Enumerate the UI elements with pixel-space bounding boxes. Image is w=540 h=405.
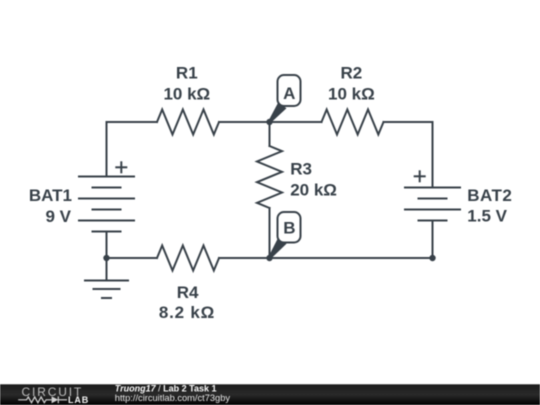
svg-text:LAB: LAB	[68, 395, 89, 405]
svg-text:A: A	[283, 84, 295, 103]
svg-text:10 kΩ: 10 kΩ	[328, 85, 375, 104]
svg-text:R2: R2	[341, 64, 363, 83]
svg-text:R3: R3	[290, 159, 312, 178]
svg-text:BAT1: BAT1	[29, 186, 72, 205]
svg-text:8.2 kΩ: 8.2 kΩ	[159, 303, 215, 322]
svg-text:R1: R1	[176, 64, 198, 83]
svg-text:1.5 V: 1.5 V	[467, 207, 507, 226]
svg-text:B: B	[283, 219, 295, 238]
svg-text:9 V: 9 V	[45, 207, 71, 226]
svg-text:Truong17 / Lab 2 Task 1: Truong17 / Lab 2 Task 1	[115, 383, 217, 393]
svg-text:10 kΩ: 10 kΩ	[163, 85, 210, 104]
svg-text:BAT2: BAT2	[467, 186, 512, 205]
svg-text:20 kΩ: 20 kΩ	[290, 180, 337, 199]
svg-text:http://circuitlab.com/ct73gby: http://circuitlab.com/ct73gby	[115, 393, 231, 403]
svg-text:R4: R4	[177, 283, 199, 302]
